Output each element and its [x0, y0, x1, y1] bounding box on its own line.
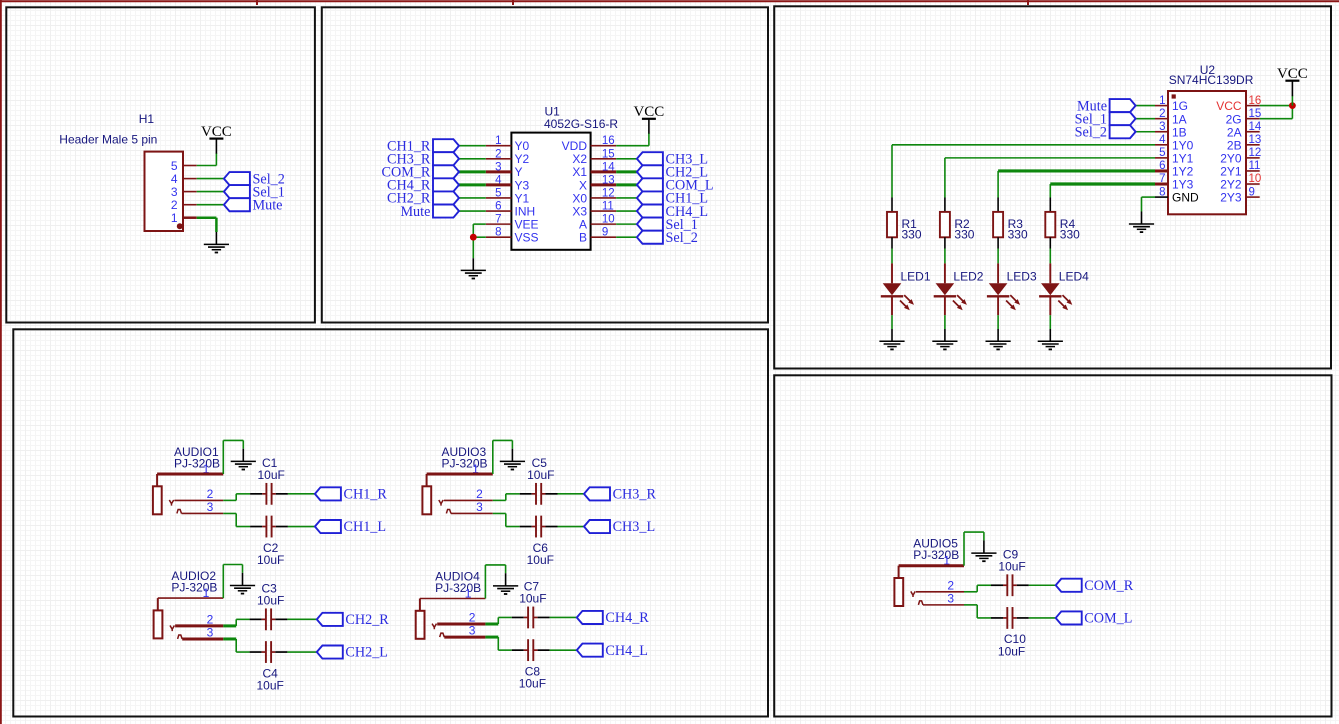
wire pin3 to Sel_1 — [197, 191, 225, 193]
net flag CH1_R — [315, 487, 387, 503]
LED LED1 — [881, 263, 914, 315]
svg-text:COM_R: COM_R — [1084, 578, 1133, 594]
header H1 — [59, 112, 196, 231]
svg-text:X2: X2 — [572, 152, 587, 166]
net flag CH2_L — [317, 645, 388, 661]
svg-text:1: 1 — [1159, 95, 1165, 107]
IC U2 labels — [1169, 63, 1254, 87]
wire Mute to U2 pin 1 — [1136, 105, 1155, 107]
net flag CH1_R (U1 left) — [387, 138, 459, 154]
wire pin 14 to CH2_L — [616, 170, 637, 173]
net flag COM_L (U1 right) — [637, 178, 714, 194]
svg-text:15: 15 — [602, 148, 615, 160]
sheet frame 2 (top-middle) — [322, 7, 768, 322]
svg-text:Sel_2: Sel_2 — [1075, 124, 1107, 140]
svg-text:11: 11 — [1249, 160, 1261, 172]
resistor R2 — [940, 198, 950, 249]
wire CH2_R to pin 5 — [459, 197, 486, 199]
svg-text:Mute: Mute — [253, 197, 283, 213]
audio jack AUDIO2 — [154, 598, 183, 639]
svg-text:VCC: VCC — [1216, 99, 1242, 113]
svg-text:3: 3 — [207, 625, 214, 639]
junction VCC node — [1289, 102, 1296, 109]
wire pin 13 to COM_L — [616, 183, 637, 186]
wire LED2 to ground — [944, 315, 946, 329]
wire C2 to flag (AUDIO1) — [288, 526, 315, 528]
svg-text:CH1_R: CH1_R — [344, 487, 388, 503]
svg-text:LED2: LED2 — [953, 270, 983, 284]
net flag COM_L — [1056, 611, 1133, 627]
svg-text:LED4: LED4 — [1059, 270, 1089, 284]
net flag CH4_R (U1 left) — [387, 178, 459, 194]
power VCC (U2) — [1277, 66, 1308, 96]
wire LED3 to ground — [997, 315, 999, 329]
pin 16 (U1 VDD) — [562, 135, 617, 153]
svg-text:X1: X1 — [572, 165, 587, 179]
svg-text:COM_L: COM_L — [1084, 611, 1132, 627]
wire R4 to LED4 — [1049, 249, 1051, 264]
svg-text:PJ-320B: PJ-320B — [435, 581, 481, 595]
wire VEE/VSS junction — [473, 224, 486, 258]
svg-text:VCC: VCC — [201, 124, 232, 140]
svg-text:Mute: Mute — [400, 204, 430, 220]
pin 15 (U2 2G) — [1226, 108, 1262, 126]
svg-text:LED1: LED1 — [901, 270, 931, 284]
svg-text:VEE: VEE — [515, 218, 539, 232]
wire pin1 to ground (AUDIO5) — [963, 532, 965, 566]
svg-text:4052G-S16-R: 4052G-S16-R — [544, 117, 618, 131]
power VCC (U1) — [633, 104, 664, 134]
LED LED2 — [934, 263, 967, 315]
svg-text:3: 3 — [469, 624, 476, 638]
svg-text:1A: 1A — [1172, 112, 1187, 126]
svg-text:9: 9 — [602, 227, 608, 239]
svg-text:3: 3 — [207, 500, 214, 514]
capacitor C9 — [991, 574, 1029, 596]
svg-text:6: 6 — [495, 201, 501, 213]
pin 4 (U2 1Y0) — [1155, 134, 1194, 152]
svg-text:INH: INH — [515, 204, 536, 218]
ground (LED4) — [1038, 329, 1063, 350]
svg-text:4: 4 — [495, 174, 502, 186]
wire pin3 (AUDIO2) — [182, 637, 223, 640]
wire U2 pin 4 to R1 — [892, 144, 1155, 146]
pin 11 (U1 X3) — [572, 201, 616, 219]
svg-text:330: 330 — [1060, 228, 1080, 242]
pin 16 (U2 VCC) — [1216, 95, 1261, 113]
wire pin2 to Mute — [197, 204, 225, 206]
svg-text:H1: H1 — [139, 112, 155, 126]
audio jack AUDIO3 — [422, 474, 451, 514]
ground (H1) — [204, 232, 229, 253]
svg-text:16: 16 — [1249, 95, 1262, 107]
svg-text:10uF: 10uF — [257, 594, 284, 608]
wire pin3 (AUDIO4) — [444, 636, 485, 639]
svg-text:VSS: VSS — [515, 231, 539, 245]
pin 8 (U2 GND) — [1155, 186, 1199, 204]
svg-text:1Y1: 1Y1 — [1172, 151, 1194, 165]
svg-text:330: 330 — [902, 228, 922, 242]
junction VSS node — [470, 234, 477, 241]
wire C1 to flag (AUDIO1) — [288, 493, 315, 495]
wire LED1 to ground — [891, 315, 893, 329]
ground (U1) — [461, 258, 486, 279]
svg-text:SN74HC139DR: SN74HC139DR — [1169, 73, 1254, 87]
wire pin1 to ground — [197, 216, 217, 219]
pin 3 (U2 1B) — [1155, 121, 1187, 139]
wire C3 to flag (AUDIO2) — [287, 618, 316, 620]
ground (AUDIO4) — [493, 573, 518, 595]
svg-text:Y2: Y2 — [515, 152, 530, 166]
svg-text:10uF: 10uF — [519, 677, 546, 691]
wire C8 to flag (AUDIO4) — [550, 649, 577, 651]
wire VCC lead — [1291, 96, 1293, 106]
wire jack pin1 (AUDIO2) — [158, 597, 224, 599]
svg-text:14: 14 — [1249, 121, 1262, 133]
wire pin2 (AUDIO4) — [437, 623, 485, 626]
svg-text:Y1: Y1 — [515, 191, 530, 205]
svg-text:2G: 2G — [1226, 112, 1242, 126]
svg-text:2: 2 — [171, 198, 178, 212]
capacitor C4 — [250, 641, 288, 663]
svg-text:2: 2 — [476, 487, 483, 501]
net flag CH4_L — [577, 643, 648, 659]
wire jack pin1 (AUDIO3) — [427, 473, 493, 476]
wire pin15 to VCC — [1260, 118, 1293, 120]
svg-text:1: 1 — [495, 135, 501, 147]
svg-text:CH1_L: CH1_L — [344, 519, 387, 535]
svg-text:2: 2 — [207, 612, 214, 626]
wire pin1 to ground (AUDIO4) — [484, 565, 486, 599]
net flag COM_R — [1056, 578, 1134, 594]
pin 15 (U1 X2) — [572, 148, 616, 166]
capacitor C7 — [512, 607, 550, 629]
capacitor C10 — [991, 607, 1029, 629]
svg-text:CH3_R: CH3_R — [613, 487, 657, 503]
svg-text:VCC: VCC — [633, 104, 664, 120]
wire VDD to VCC — [616, 145, 649, 147]
net flag Mute (U1 left) — [400, 204, 459, 220]
svg-text:2Y2: 2Y2 — [1220, 178, 1242, 192]
pin 5 (U1 Y1) — [486, 187, 530, 205]
pin 7 (U2 1Y3) — [1155, 173, 1194, 191]
pin 2 (U2 1A) — [1155, 108, 1187, 126]
capacitor C2 — [250, 516, 288, 538]
svg-text:2Y0: 2Y0 — [1220, 151, 1242, 165]
svg-text:CH4_L: CH4_L — [605, 643, 648, 659]
ground (LED2) — [932, 329, 957, 350]
svg-text:6: 6 — [1159, 160, 1165, 172]
net flag CH3_L (U1 right) — [637, 151, 708, 167]
svg-text:1: 1 — [171, 211, 178, 225]
svg-text:7: 7 — [1159, 173, 1165, 185]
wire pin1 to ground (AUDIO2) — [222, 565, 224, 599]
svg-text:2: 2 — [207, 487, 214, 501]
svg-text:2Y3: 2Y3 — [1220, 191, 1242, 205]
net flag Sel_2 (U1 right) — [637, 230, 698, 246]
net flag CH3_R (U1 left) — [387, 151, 459, 167]
svg-text:PJ-320B: PJ-320B — [913, 548, 959, 562]
svg-text:4: 4 — [171, 172, 178, 186]
pin 7 (U1 VEE) — [486, 214, 539, 232]
wire Mute to pin 6 — [459, 210, 486, 212]
pin 13 (U1 X) — [579, 174, 616, 192]
svg-text:CH3_L: CH3_L — [613, 519, 656, 535]
svg-text:1B: 1B — [1172, 125, 1187, 139]
ground (LED3) — [986, 329, 1011, 350]
pin 12 (U2 2Y0) — [1220, 147, 1261, 165]
wire R1 to LED1 — [891, 249, 893, 264]
pin 1 (U2 1G) — [1155, 95, 1188, 113]
wire pin2 (AUDIO2) — [175, 624, 223, 627]
wire pin2 (AUDIO1) — [174, 499, 223, 501]
IC U2 body — [1168, 91, 1246, 214]
power VCC (H1) — [201, 124, 232, 154]
sheet frame 3 (top-right) — [774, 6, 1331, 368]
wire U2 pin 7 to R4 — [1050, 182, 1155, 185]
LED LED4 — [1039, 263, 1072, 315]
svg-text:1G: 1G — [1172, 99, 1188, 113]
wire C7 to flag (AUDIO4) — [550, 616, 577, 618]
pin 13 (U2 2B) — [1227, 134, 1261, 152]
wire GND to ground — [1142, 196, 1156, 198]
sheet frame 1 (top-left) — [6, 7, 315, 322]
svg-text:8: 8 — [1159, 186, 1165, 198]
svg-text:10uF: 10uF — [258, 468, 285, 482]
svg-text:Y: Y — [515, 165, 523, 179]
audio jack AUDIO1 — [153, 474, 182, 514]
svg-text:Y0: Y0 — [515, 139, 530, 153]
ground (AUDIO1) — [231, 449, 256, 471]
svg-text:15: 15 — [1249, 108, 1262, 120]
pin 9 (U1 B) — [579, 227, 616, 245]
net flag Sel_1 (U1 right) — [637, 217, 698, 233]
svg-text:X: X — [579, 178, 587, 192]
svg-text:10uF: 10uF — [998, 559, 1025, 573]
ground (U2 GND) — [1129, 212, 1154, 234]
svg-text:PJ-320B: PJ-320B — [174, 456, 220, 470]
svg-text:CH2_L: CH2_L — [345, 645, 388, 661]
svg-text:14: 14 — [602, 161, 615, 173]
svg-text:2: 2 — [1159, 108, 1165, 120]
svg-text:9: 9 — [1249, 186, 1255, 198]
capacitor C1 — [250, 483, 288, 505]
wire pin 10 to Sel_1 — [616, 223, 637, 225]
wire pin16 to VCC — [1260, 105, 1293, 107]
net flag CH2_R (U1 left) — [387, 191, 459, 207]
ground (AUDIO2) — [230, 573, 255, 595]
wire C10 to flag (AUDIO5) — [1029, 617, 1056, 619]
wire pin3 (AUDIO3) — [451, 512, 493, 514]
net flag CH1_L (U1 right) — [637, 191, 708, 207]
pin 6 (U1 INH) — [486, 201, 535, 219]
wire R3 to LED3 — [997, 249, 999, 264]
wire pin 9 to Sel_2 — [616, 236, 637, 238]
pin 10 (U1 A) — [579, 214, 616, 232]
wire C5 to flag (AUDIO3) — [558, 493, 585, 495]
pin 9 (U2 2Y3) — [1220, 186, 1259, 204]
svg-text:X3: X3 — [572, 204, 587, 218]
wire pin 11 to CH4_L — [616, 210, 637, 212]
net flag COM_R (U1 left) — [382, 165, 459, 181]
svg-text:3: 3 — [171, 185, 178, 199]
pin 8 (U1 VSS) — [486, 227, 539, 245]
wire pin 15 to CH3_L — [616, 158, 637, 160]
svg-text:5: 5 — [1159, 147, 1165, 159]
pin 5 (U2 1Y1) — [1155, 147, 1194, 165]
wire COM_R to pin 3 — [459, 170, 486, 173]
net flag Mute — [224, 197, 283, 213]
ground (AUDIO5) — [971, 540, 996, 562]
net flag CH1_L — [315, 519, 386, 535]
svg-text:PJ-320B: PJ-320B — [442, 456, 488, 470]
wire pin1 to ground (AUDIO3) — [492, 440, 494, 474]
pin 11 (U2 2Y1) — [1220, 160, 1260, 178]
sheet frame 4 (bottom-left) — [13, 329, 768, 716]
audio jack AUDIO4 — [416, 599, 445, 639]
svg-text:2Y1: 2Y1 — [1220, 165, 1242, 179]
wire CH4_R to pin 4 — [459, 183, 486, 186]
net flag CH2_R — [317, 612, 389, 628]
wire jack pin1 (AUDIO4) — [420, 598, 486, 600]
svg-text:5: 5 — [171, 159, 178, 173]
pin 12 (U1 X0) — [572, 187, 616, 205]
svg-text:12: 12 — [602, 187, 615, 199]
svg-text:7: 7 — [495, 214, 501, 226]
svg-text:1Y0: 1Y0 — [1172, 138, 1194, 152]
svg-text:10uF: 10uF — [998, 644, 1025, 658]
svg-text:330: 330 — [954, 228, 974, 242]
ground (LED1) — [879, 329, 904, 350]
svg-text:Header Male 5 pin: Header Male 5 pin — [59, 133, 157, 147]
svg-text:1Y3: 1Y3 — [1172, 178, 1194, 192]
svg-text:LED3: LED3 — [1007, 270, 1037, 284]
capacitor C6 — [520, 516, 558, 538]
svg-text:13: 13 — [602, 174, 615, 186]
wire Sel_2 to U2 pin 3 — [1136, 131, 1155, 133]
wire jack pin1 (AUDIO5) — [899, 564, 964, 567]
wire U2 pin 5 to R2 — [945, 157, 1155, 159]
svg-text:3: 3 — [947, 591, 954, 605]
svg-text:Y3: Y3 — [515, 178, 530, 192]
svg-text:VCC: VCC — [1277, 66, 1308, 82]
svg-text:10uF: 10uF — [519, 592, 546, 606]
resistor R1 — [887, 198, 897, 249]
svg-text:12: 12 — [1249, 147, 1262, 159]
svg-text:13: 13 — [1249, 134, 1262, 146]
svg-text:10: 10 — [602, 214, 615, 226]
svg-text:2A: 2A — [1227, 125, 1242, 139]
op-amp U1 labels — [544, 105, 618, 132]
svg-text:A: A — [579, 218, 587, 232]
svg-text:3: 3 — [1159, 121, 1165, 133]
pin 3 (U1 Y) — [486, 161, 523, 179]
wire pin2 (AUDIO5) — [916, 591, 964, 593]
pin 14 (U2 2A) — [1227, 121, 1262, 139]
svg-text:8: 8 — [495, 227, 501, 239]
op-amp U1 body — [511, 133, 590, 250]
svg-text:4: 4 — [1159, 134, 1166, 146]
svg-text:2B: 2B — [1227, 138, 1242, 152]
LED LED3 — [987, 263, 1020, 315]
svg-text:Sel_2: Sel_2 — [666, 230, 698, 246]
wire LED4 to ground — [1049, 315, 1051, 329]
wire C6 to flag (AUDIO3) — [558, 526, 585, 528]
net flag Mute (U2) — [1077, 98, 1136, 114]
svg-text:10uF: 10uF — [527, 468, 554, 482]
wire pin5 to VCC — [197, 165, 217, 167]
net flag Sel_2 (U2) — [1075, 124, 1136, 140]
svg-text:2: 2 — [495, 148, 501, 160]
resistor R4 — [1045, 198, 1055, 249]
ground (AUDIO3) — [500, 449, 525, 471]
wire CH3_R to pin 2 — [459, 158, 486, 160]
wire pin 12 to CH1_L — [616, 197, 637, 199]
wire CH1_R to pin 1 — [459, 145, 486, 147]
svg-text:1Y2: 1Y2 — [1172, 165, 1194, 179]
svg-text:10uF: 10uF — [257, 679, 284, 693]
pin 1 (U1 Y0) — [486, 135, 530, 153]
wire U2 pin 6 to R3 — [998, 169, 1155, 172]
wire Sel_1 to U2 pin 2 — [1136, 118, 1155, 120]
svg-text:10uF: 10uF — [257, 553, 284, 567]
svg-text:5: 5 — [495, 187, 501, 199]
wire R2 to LED2 — [944, 249, 946, 264]
pin 6 (U2 1Y2) — [1155, 160, 1194, 178]
pin 2 (U1 Y2) — [486, 148, 530, 166]
wire pin1 to ground (AUDIO1) — [222, 440, 224, 474]
svg-text:GND: GND — [1172, 191, 1199, 205]
svg-text:PJ-320B: PJ-320B — [171, 580, 217, 594]
svg-text:CH2_R: CH2_R — [345, 612, 389, 628]
resistor R3 — [993, 198, 1003, 249]
svg-text:11: 11 — [602, 201, 614, 213]
pin 14 (U1 X1) — [572, 161, 616, 179]
wire pin3 (AUDIO5) — [923, 604, 964, 606]
svg-text:330: 330 — [1008, 228, 1028, 242]
svg-text:3: 3 — [495, 161, 501, 173]
wire C9 to flag (AUDIO5) — [1029, 584, 1056, 586]
svg-text:X0: X0 — [572, 191, 587, 205]
capacitor C3 — [250, 608, 288, 630]
net flag Sel_1 (U2) — [1075, 111, 1136, 127]
svg-text:10: 10 — [1249, 173, 1262, 185]
capacitor C5 — [520, 483, 558, 505]
svg-text:2: 2 — [947, 578, 954, 592]
net flag CH4_R — [577, 610, 649, 626]
svg-text:2: 2 — [469, 611, 476, 625]
svg-text:3: 3 — [476, 500, 483, 514]
wire pin4 to Sel_2 — [197, 178, 225, 180]
net flag Sel_2 — [224, 171, 285, 187]
net flag CH3_L — [584, 519, 655, 535]
svg-text:B: B — [579, 231, 587, 245]
svg-text:16: 16 — [602, 135, 615, 147]
wire jack pin1 (AUDIO1) — [157, 473, 223, 476]
wire C4 to flag (AUDIO2) — [287, 651, 316, 653]
pin 10 (U2 2Y2) — [1220, 173, 1261, 191]
svg-text:10uF: 10uF — [527, 553, 554, 567]
wire pin3 (AUDIO1) — [182, 512, 224, 514]
net flag CH2_L (U1 right) — [637, 165, 708, 181]
svg-text:CH4_R: CH4_R — [605, 610, 649, 626]
net flag CH4_L (U1 right) — [637, 204, 708, 220]
wire pin2 (AUDIO3) — [444, 499, 493, 501]
pin 4 (U1 Y3) — [486, 174, 530, 192]
svg-text:VDD: VDD — [562, 139, 588, 153]
audio jack AUDIO5 — [894, 566, 923, 606]
capacitor C8 — [512, 639, 550, 661]
